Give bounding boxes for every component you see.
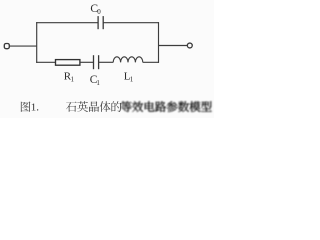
caption char 图 bbox=[21, 101, 31, 111]
wire resistor to C1 bbox=[80, 61, 94, 63]
caption char 体 bbox=[100, 101, 111, 112]
terminal left bbox=[4, 44, 9, 49]
svg-text:1.: 1. bbox=[31, 102, 40, 114]
caption char 路 (blurred) bbox=[155, 101, 166, 112]
wire inductor to right bus bbox=[143, 61, 159, 63]
caption char 电 (blurred) bbox=[145, 101, 155, 111]
caption char 英 bbox=[77, 101, 88, 112]
capacitor C1 plate left bbox=[93, 55, 95, 69]
svg-text:1: 1 bbox=[71, 76, 75, 84]
caption char 晶 bbox=[89, 101, 99, 111]
wire C1 to inductor bbox=[99, 61, 114, 63]
caption char 石 bbox=[66, 102, 77, 112]
svg-text:1: 1 bbox=[130, 76, 134, 84]
wire bottom: left bus to resistor bbox=[36, 61, 55, 63]
terminal right bbox=[187, 43, 192, 48]
capacitor C0 plate left bbox=[97, 16, 99, 29]
caption char 型 (blurred) bbox=[201, 101, 212, 111]
capacitor C0 plate right bbox=[102, 16, 104, 29]
caption char 等 (blurred) bbox=[121, 101, 132, 112]
wire top right segment bbox=[103, 22, 159, 24]
caption char 数 (blurred) bbox=[178, 101, 189, 112]
caption char 效 (blurred) bbox=[132, 101, 143, 112]
caption char 模 (blurred) bbox=[189, 101, 200, 112]
svg-text:1: 1 bbox=[96, 79, 100, 87]
capacitor C1 plate right bbox=[98, 55, 100, 69]
svg-text:0: 0 bbox=[97, 8, 101, 16]
wire left terminal to left bus bbox=[10, 45, 37, 47]
wire right bus vertical bbox=[158, 22, 160, 63]
caption char 的 bbox=[111, 101, 121, 112]
caption char 参 (blurred) bbox=[167, 101, 178, 112]
wire top left segment bbox=[36, 22, 98, 24]
inductor L1 bbox=[113, 57, 143, 63]
wire left bus vertical bbox=[36, 22, 38, 63]
wire right bus to right terminal bbox=[159, 45, 188, 47]
resistor R1 bbox=[56, 60, 80, 66]
